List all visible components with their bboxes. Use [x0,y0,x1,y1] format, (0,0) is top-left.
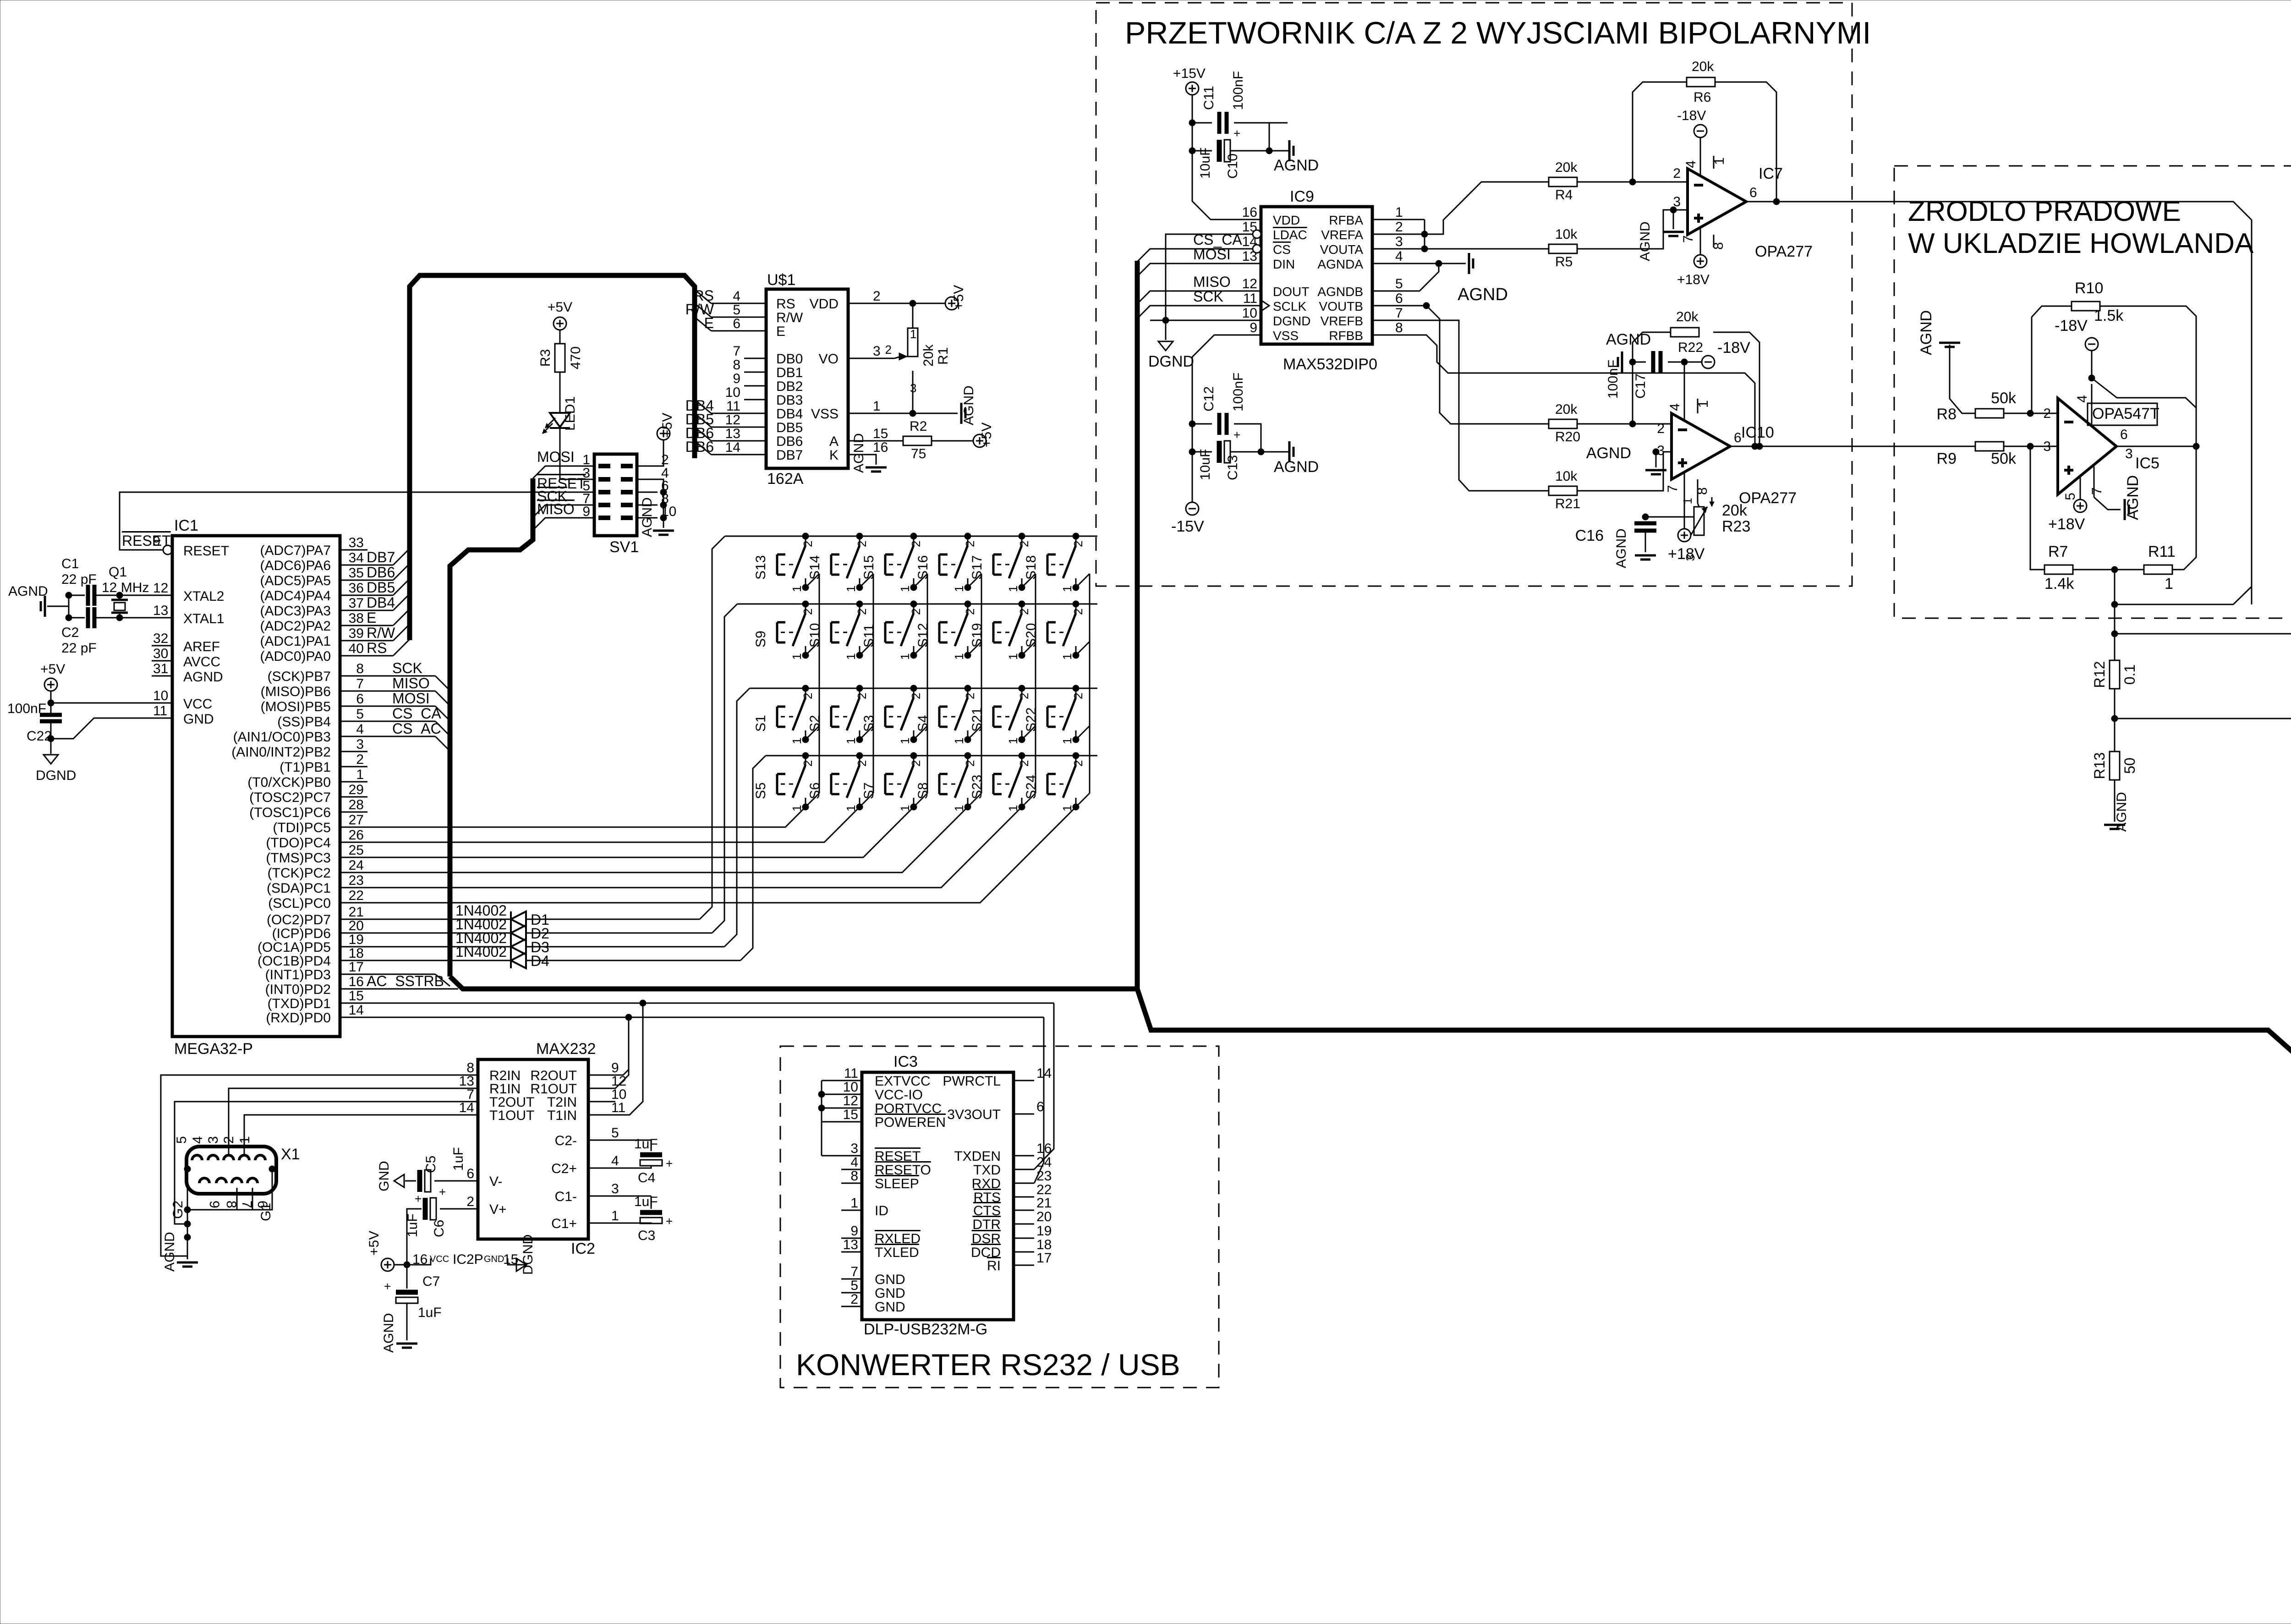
pin 4 IC10 [1684,362,1685,420]
svg-text:37: 37 [349,596,364,611]
svg-text:(T0/XCK)PB0: (T0/XCK)PB0 [247,775,331,790]
wire row rail 2 keypad [737,604,1097,605]
pin 7 IC2 [457,1101,478,1103]
svg-text:1: 1 [1006,653,1020,660]
wire keypad row 4 to D4 [740,756,766,960]
svg-text:31: 31 [153,661,168,676]
svg-text:15: 15 [349,988,364,1004]
svg-text:SV1: SV1 [609,538,639,556]
svg-text:R22: R22 [1678,340,1703,355]
svg-text:2: 2 [1071,693,1085,699]
connector X1 DB9 [186,1147,276,1194]
svg-text:E: E [704,315,714,331]
svg-text:11: 11 [153,703,167,719]
wire R/W to US1 [695,303,711,317]
svg-text:GND: GND [484,1254,504,1264]
pin 7 IC10 [1684,473,1685,504]
ground AGND C7 [396,1343,417,1345]
svg-text:E: E [776,324,785,339]
wire R2 to +5V [932,440,973,442]
junction sense row1 [2111,601,2118,608]
svg-text:RXD: RXD [972,1176,1001,1191]
svg-text:R/W: R/W [367,625,395,641]
wire SCK to IC9 [1137,306,1240,318]
svg-text:1: 1 [1696,400,1711,408]
svg-text:DB6: DB6 [685,439,714,455]
op-amp IC7 OPA277 [1688,169,1746,235]
svg-text:1: 1 [898,586,912,592]
wire R12 R13 [2114,689,2116,752]
svg-text:35: 35 [349,565,364,581]
wire TXD to MAX232 T1IN [609,1003,643,1115]
svg-text:(T1)PB1: (T1)PB1 [280,760,331,775]
svg-text:IC2P: IC2P [453,1252,483,1267]
ground AGND VSS [960,403,963,424]
svg-text:C1-: C1- [555,1189,577,1204]
svg-text:(ADC5)PA5: (ADC5)PA5 [260,573,331,588]
pin 13 US1 [744,440,766,442]
resistor R11 1 [2144,565,2172,574]
svg-text:10uF: 10uF [1198,449,1213,480]
svg-text:1: 1 [2165,575,2173,593]
svg-text:LED1: LED1 [563,396,578,431]
svg-text:CS: CS [1273,242,1291,257]
svg-text:20k: 20k [1722,502,1748,519]
svg-text:DLP-USB232M-G: DLP-USB232M-G [864,1321,987,1338]
wire R13 row [2115,718,2291,719]
svg-text:(ICP)PD6: (ICP)PD6 [272,926,331,941]
svg-text:6: 6 [1734,430,1742,445]
svg-text:PORTVCC: PORTVCC [875,1101,942,1116]
svg-text:C7: C7 [422,1274,440,1289]
svg-text:1: 1 [1060,738,1074,744]
pin 1 US1 [848,413,870,414]
wire AGND stub IC7 [1673,210,1674,229]
svg-text:1: 1 [1060,653,1074,660]
wire CS_CA to IC9 [1137,249,1240,262]
wire IC10+ AGND [1653,449,1659,455]
svg-text:5: 5 [356,707,364,722]
svg-text:13: 13 [153,603,168,618]
svg-text:S6: S6 [807,782,822,799]
svg-text:40: 40 [349,641,364,656]
wire XTAL1 [94,617,152,619]
svg-text:+: + [666,1157,673,1170]
capacitor C4 1uF [609,1140,651,1141]
svg-text:DGND: DGND [1148,353,1194,370]
svg-text:EXTVCC: EXTVCC [875,1074,931,1089]
pin 12 IC3 [841,1108,862,1109]
pin 13 IC1 [152,617,172,619]
svg-text:20k: 20k [1692,59,1714,74]
svg-text:20k: 20k [1676,309,1699,324]
switch S20 [1075,604,1077,613]
resistor R21 10k [1549,486,1577,495]
svg-text:XTAL1: XTAL1 [183,611,225,626]
svg-text:2: 2 [1071,760,1085,767]
dashed frame PRZETWORNIK C/A [1096,3,1852,586]
svg-text:10k: 10k [1555,469,1578,484]
svg-text:20: 20 [349,918,364,933]
svg-text:2: 2 [1017,541,1031,547]
pin 23 IC1 [340,887,367,889]
svg-text:2: 2 [963,541,977,547]
svg-text:AGND: AGND [1918,310,1935,355]
svg-text:32: 32 [153,631,168,646]
svg-text:29: 29 [349,782,364,797]
svg-text:2: 2 [1673,166,1681,181]
svg-text:17: 17 [1036,1251,1052,1266]
pin 15 IC9 inversion circle [1253,230,1261,238]
junction IC7- node [1629,179,1636,185]
ground AGND R13 [2104,824,2125,826]
wire VOUTA to R5 [1393,248,1549,250]
svg-text:36: 36 [349,581,364,596]
svg-text:MOSI: MOSI [1193,246,1231,263]
junction IC7 output [1773,198,1780,205]
svg-text:2: 2 [1395,219,1403,235]
svg-text:POWEREN: POWEREN [875,1115,946,1130]
svg-text:R3: R3 [538,349,553,367]
svg-text:3: 3 [2043,439,2051,454]
svg-text:5: 5 [1395,276,1403,291]
wire XTAL2 [94,595,152,596]
svg-text:RS: RS [367,640,387,656]
switch S18 [1075,536,1077,545]
svg-text:(SDA)PC1: (SDA)PC1 [267,881,331,896]
pin 14 IC9 inversion circle [1253,245,1261,253]
pin 21 IC3 [1014,1210,1034,1211]
svg-text:(MOSI)PB5: (MOSI)PB5 [261,699,331,714]
svg-text:2: 2 [963,693,977,699]
pin 5 IC9 [1372,291,1393,292]
junction VSS [910,410,916,417]
pin 20 IC3 [1014,1223,1034,1225]
ground AGND IC7 [1663,231,1684,233]
wire +15V rail [1192,95,1193,165]
svg-text:(ADC1)PA1: (ADC1)PA1 [260,634,331,649]
svg-text:2: 2 [885,343,892,357]
svg-text:AGND: AGND [2124,475,2142,520]
svg-text:3: 3 [611,1181,619,1196]
svg-text:AGND: AGND [961,385,976,425]
svg-text:2: 2 [909,760,923,767]
DAC IC9 MAX532 [1261,207,1372,344]
bus AC horizontal [450,977,1137,989]
wire VSS [870,413,958,414]
svg-text:VDD: VDD [1273,213,1300,227]
svg-text:R5: R5 [1555,254,1573,269]
svg-text:VREFB: VREFB [1321,314,1363,328]
svg-text:+: + [415,1192,422,1206]
svg-text:C2-: C2- [555,1133,577,1148]
supply +5V R2 [973,434,986,447]
svg-text:MOSI: MOSI [392,690,430,707]
svg-text:11: 11 [726,399,740,414]
pin 4 IC7 supply [1700,137,1701,175]
wire DGND pin IC9 [1150,320,1240,321]
svg-text:11: 11 [844,1066,858,1081]
pin 5 IC1 [340,721,367,722]
junction IC5 output [2193,443,2199,450]
svg-text:IC3: IC3 [893,1053,918,1070]
pin 22 IC3 [1014,1196,1034,1198]
svg-text:1: 1 [1060,805,1074,812]
ground GND C5 [405,1180,416,1182]
resistor R4 20k [1549,177,1577,187]
wire X1 shell ground [187,1169,188,1259]
svg-text:DGND: DGND [521,1234,536,1275]
svg-text:13: 13 [725,426,740,441]
supply +5V LED [554,317,566,330]
module IC3 DLP-USB232M-G [862,1072,1014,1320]
svg-text:(AIN1/OC0)PB3: (AIN1/OC0)PB3 [233,730,331,745]
svg-text:5: 5 [2063,493,2078,500]
switch S3 [913,688,915,697]
pin 5 IC2 [588,1140,609,1141]
svg-text:(ADC6)PA6: (ADC6)PA6 [260,558,331,573]
pin 11 IC3 [841,1080,862,1081]
wire VDD to +5V [870,303,945,304]
svg-text:8: 8 [356,661,364,676]
svg-text:RFBB: RFBB [1329,329,1363,343]
pin 16 IC9 [1240,219,1261,220]
junction R12 R13 [2111,715,2118,722]
svg-text:TXLED: TXLED [875,1245,919,1260]
svg-text:3: 3 [356,737,364,752]
svg-text:1.4k: 1.4k [2044,575,2074,593]
switch S15 [913,536,915,545]
pin 4 US1 [744,303,766,304]
svg-text:22 pF: 22 pF [61,572,97,587]
svg-text:AGNDB: AGNDB [1317,285,1363,299]
pin 9 IC9 [1240,335,1261,336]
switch S9 [805,604,806,613]
svg-text:TXD: TXD [973,1163,1001,1178]
svg-text:33: 33 [349,535,364,550]
svg-text:1: 1 [1006,738,1020,744]
svg-text:-15V: -15V [1171,518,1204,535]
svg-text:PWRCTL: PWRCTL [943,1074,1001,1089]
pin 4 IC2 [588,1168,609,1169]
svg-text:1: 1 [1060,586,1074,592]
wire R21 to IC10+ [1577,452,1672,491]
supply -18V IC5 [2085,338,2098,351]
svg-text:(TOSC2)PC7: (TOSC2)PC7 [249,790,331,805]
svg-text:2: 2 [873,289,881,304]
svg-text:S7: S7 [861,782,877,799]
pin 7 IC9 [1372,320,1393,321]
svg-text:4: 4 [1395,249,1403,264]
switch S23 [1021,756,1023,765]
svg-text:3: 3 [873,344,881,359]
svg-text:C1+: C1+ [551,1216,577,1231]
svg-text:12: 12 [1242,276,1257,291]
svg-text:1: 1 [790,805,804,812]
svg-text:(TCK)PC2: (TCK)PC2 [268,866,331,881]
pin 2 SV1 [637,466,658,467]
pin 1 IC1 [340,781,367,783]
LED LED1 [559,372,561,412]
wire X1 pin3 to R1IN [229,1088,457,1156]
wire R13 to AGND [2114,780,2116,822]
svg-text:1: 1 [790,653,804,660]
pin 14 IC2 [457,1114,478,1116]
svg-text:R23: R23 [1722,518,1750,535]
svg-text:2: 2 [466,1194,474,1209]
svg-text:10k: 10k [1555,227,1578,242]
svg-text:+: + [1233,126,1240,140]
junction sense row2 [2111,631,2118,637]
svg-text:AGND: AGND [162,1232,177,1272]
svg-text:(OC1A)PD5: (OC1A)PD5 [258,940,331,955]
pin 15 IC9 [1240,234,1261,235]
pin 9 IC1 RESET [163,545,172,554]
pin 11 IC9 clock mark [1261,300,1269,311]
capacitor C22 100nF [50,703,52,715]
pin 37 IC1 [340,610,367,611]
svg-text:ID: ID [875,1203,888,1218]
pin 4 IC9 [1372,263,1393,264]
svg-text:C1: C1 [61,556,79,571]
wire PD3 stub [361,974,435,975]
pin 7 IC5 [2094,466,2095,497]
pin 12 IC2 [588,1088,609,1089]
wire MISO SV1 [533,518,574,530]
svg-text:2: 2 [1071,541,1085,547]
svg-text:C16: C16 [1575,527,1604,544]
pin 1 IC7 trim [1713,156,1715,169]
node X1 shell left [184,1166,191,1172]
svg-text:2: 2 [1071,609,1085,615]
capacitor C3 1uF [609,1196,651,1197]
ground AGND C13 [1288,441,1291,462]
svg-text:12: 12 [843,1093,858,1108]
resistor R20 20k [1549,419,1577,428]
svg-text:C12: C12 [1201,386,1217,411]
svg-text:RS: RS [776,296,795,312]
svg-text:2: 2 [963,760,977,767]
wire column vertical 5 keypad [1035,574,1036,793]
pin 8 IC9 [1372,335,1393,336]
resistor R7 1.4k [2030,446,2044,570]
switch S7 [913,756,915,765]
svg-text:26: 26 [349,828,364,843]
svg-text:C13: C13 [1225,455,1240,480]
svg-text:(INT0)PD2: (INT0)PD2 [265,982,331,997]
svg-text:(ADC2)PA2: (ADC2)PA2 [260,619,331,634]
wire RFBB loop [1393,335,1755,446]
svg-text:1uF: 1uF [634,1136,658,1152]
wire R5 to IC7+ [1577,210,1688,249]
svg-text:RESETO: RESETO [875,1163,931,1178]
switch S1 [805,688,806,697]
svg-text:C3: C3 [638,1228,655,1243]
wire RXD PD0 [361,1017,1044,1018]
svg-text:2: 2 [801,693,815,699]
wire RXD to IC3 [1034,1017,1044,1183]
svg-text:4: 4 [733,289,740,304]
svg-text:12: 12 [153,581,168,596]
pin 36 IC1 [340,595,367,596]
junction VCC [48,700,54,706]
pin 25 IC1 [340,857,367,858]
wire C7 to AGND [406,1303,408,1340]
svg-text:DB1: DB1 [776,365,803,380]
svg-text:9: 9 [733,371,740,386]
junction TXD [640,1000,646,1006]
svg-text:DB4: DB4 [776,406,803,422]
supply -15V [1186,502,1199,515]
wire C12 C13 to AGND [1234,424,1261,452]
svg-text:TXDEN: TXDEN [954,1149,1001,1164]
svg-text:100nF: 100nF [1231,373,1246,411]
svg-text:RI: RI [987,1258,1001,1273]
svg-text:14: 14 [725,440,740,455]
svg-text:+18V: +18V [2048,516,2085,533]
svg-text:CTS: CTS [973,1203,1001,1218]
svg-text:R20: R20 [1555,429,1580,444]
wire GND15 to DGND [508,1258,526,1265]
svg-text:-18V: -18V [1717,339,1750,357]
svg-text:1: 1 [952,653,966,660]
svg-text:DTR: DTR [972,1217,1001,1232]
pin 23 IC3 [1014,1183,1034,1184]
supply +5V SV1 [657,427,670,440]
supply +5V IC1 [44,678,57,691]
wire E to US1 [695,317,711,331]
ground AGND IC5 [2124,499,2126,520]
wire R1 to VSS [912,371,914,413]
pin 12 US1 [744,427,766,428]
wire IC5 output [2116,446,2195,447]
svg-text:39: 39 [349,626,364,641]
svg-text:CS_AC: CS_AC [392,720,441,737]
svg-text:DGND: DGND [36,768,76,783]
svg-text:AREF: AREF [183,639,220,654]
svg-text:AGND: AGND [8,584,48,599]
svg-text:S17: S17 [970,555,985,580]
pin 9 IC3 [841,1238,862,1239]
svg-text:7: 7 [733,344,740,359]
svg-text:1: 1 [898,738,912,744]
svg-text:1: 1 [1006,805,1020,812]
wire VOUTB [1393,306,1549,424]
svg-text:6: 6 [466,1166,474,1181]
svg-text:W UKLADZIE HOWLANDA: W UKLADZIE HOWLANDA [1908,228,2254,259]
crystal Q1 12MHz [119,595,121,600]
svg-text:1: 1 [356,767,364,782]
svg-text:5: 5 [733,302,740,318]
capacitor C1 22pF [86,585,90,606]
switch S17 [1021,536,1023,545]
pin 4 IC3 [841,1169,862,1170]
svg-text:7: 7 [1681,235,1696,243]
svg-text:S18: S18 [1024,555,1039,580]
svg-text:8: 8 [733,357,740,373]
pin 24 IC1 [340,872,367,873]
wire GND pin [54,718,172,739]
svg-text:(TDO)PC4: (TDO)PC4 [266,835,331,850]
pin 11 IC2 [588,1114,609,1116]
switch S14 [859,536,860,545]
svg-text:C22: C22 [27,729,52,744]
svg-text:5: 5 [174,1136,189,1144]
switch S16 [967,536,969,545]
svg-text:U$1: U$1 [767,271,795,289]
svg-text:9: 9 [850,1223,858,1239]
wire column 2 keypad [361,807,860,842]
